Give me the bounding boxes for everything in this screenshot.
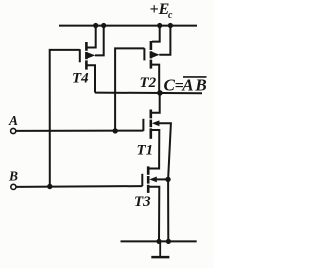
- terminal A circle: [11, 128, 16, 133]
- wire T3 substrate lead: [157, 178, 168, 180]
- svg-text:c: c: [168, 10, 173, 21]
- wire B input line to T3 gate: [16, 185, 142, 188]
- junction dot ground rail left: [156, 239, 161, 244]
- junction dot ground rail right: [166, 239, 171, 244]
- arrow T4 (points away from channel, p-type): [88, 52, 96, 58]
- wire B to T4 gate: [50, 50, 80, 187]
- wire T1 substrate to ground rail: [159, 123, 171, 241]
- transistor T2 (p-channel load): [144, 41, 159, 69]
- transistor T4 (p-channel load): [80, 42, 96, 70]
- svg-text:B: B: [8, 169, 18, 184]
- svg-text:A: A: [8, 113, 18, 128]
- gate bar T1: [142, 119, 144, 131]
- svg-text:T2: T2: [140, 75, 157, 91]
- wire T2 substrate to rail: [159, 26, 170, 55]
- junction dot output node C: [157, 90, 163, 96]
- wire T2 drain to rail: [152, 26, 160, 42]
- wire T1 source to T3 drain: [149, 130, 159, 169]
- gate bar T4: [79, 49, 81, 62]
- junction dot B line to T4 gate: [47, 184, 52, 189]
- svg-text:T3: T3: [134, 194, 151, 210]
- wire +Ec top rail: [59, 25, 197, 27]
- transistor T3 (n-channel driver): [142, 166, 157, 193]
- wire T3 source down to ground rail: [149, 187, 159, 242]
- junction dot on rail above T4 drain: [93, 23, 98, 28]
- gate bar T2: [143, 48, 145, 60]
- ground symbol: [151, 241, 169, 257]
- svg-text:+E: +E: [150, 1, 170, 18]
- junction dot on rail above T2 substrate: [168, 23, 173, 28]
- wire A input line to T1 gate: [16, 130, 144, 132]
- junction dot on rail above T4 substrate: [101, 23, 106, 28]
- arrow T2 (points away from channel, p-type): [152, 52, 160, 58]
- terminal B circle: [11, 184, 16, 189]
- gate bar T3: [141, 174, 143, 186]
- wire T1 drain up to output node: [152, 93, 160, 113]
- wire A to T2 gate: [115, 48, 144, 130]
- arrow T1 (points into channel, n-type): [152, 120, 160, 126]
- svg-text:AB: AB: [181, 76, 208, 95]
- junction dot T3 substrate on ground vertical: [165, 177, 170, 182]
- wire T4 source down to output node: [87, 65, 95, 92]
- arrow T3 (points into channel, n-type): [149, 177, 157, 183]
- wire ground bottom rail: [121, 240, 197, 242]
- svg-text:T1: T1: [137, 142, 154, 158]
- wire T4 drain to rail: [87, 26, 96, 48]
- wire T4 substrate to rail: [95, 26, 104, 56]
- svg-text:T4: T4: [72, 70, 89, 86]
- junction dot on rail above T2 drain: [157, 23, 162, 28]
- wire output line C: [95, 92, 202, 95]
- wire T2 source down to output node: [152, 65, 159, 93]
- node C overline: [183, 76, 207, 78]
- transistor T1 (n-channel driver): [143, 110, 159, 139]
- junction dot A line to T2 gate: [113, 128, 118, 133]
